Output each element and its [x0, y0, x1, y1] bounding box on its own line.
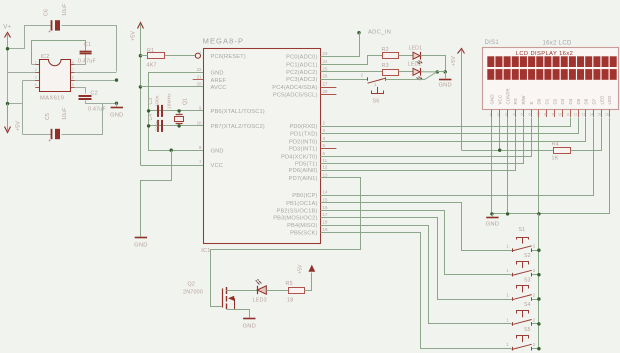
- svg-text:GND: GND: [211, 71, 224, 77]
- switch S3: [512, 297, 514, 301]
- svg-text:100n: 100n: [155, 120, 161, 131]
- crystal Q1: [175, 117, 184, 122]
- pin stub unconnected y87.1: [320, 87, 336, 89]
- diode LED1: [413, 52, 420, 59]
- wire PB5 to S5: [321, 233, 512, 349]
- svg-text:22: 22: [197, 67, 202, 72]
- svg-text:E: E: [529, 101, 534, 104]
- switch S1: [512, 248, 514, 252]
- svg-text:0.47uF: 0.47uF: [88, 107, 106, 113]
- wire switch bus: [538, 214, 540, 349]
- svg-text:PD3(INT1): PD3(INT1): [289, 147, 318, 153]
- wire R1 to reset pin: [165, 55, 195, 57]
- wire S1 to bus: [531, 250, 539, 252]
- svg-text:C6: C6: [44, 9, 50, 16]
- svg-text:PD6(AIN0): PD6(AIN0): [289, 168, 318, 174]
- node GND junction: [170, 149, 173, 152]
- node GND row d0: [537, 212, 540, 215]
- node bus S2: [537, 273, 540, 276]
- svg-text:PD5(T1): PD5(T1): [295, 161, 318, 167]
- svg-text:17: 17: [323, 212, 328, 217]
- capacitor C1: [80, 51, 92, 53]
- svg-text:18: 18: [323, 220, 328, 225]
- svg-text:2: 2: [497, 112, 499, 116]
- svg-text:ADC_IN: ADC_IN: [368, 30, 391, 36]
- wire PC3 to S6: [320, 79, 368, 81]
- wire PB0 to LCD D7: [321, 118, 594, 196]
- pin IC2 left 2: [35, 72, 39, 74]
- svg-text:7: 7: [536, 112, 538, 116]
- lcd pin stubs: [491, 110, 493, 118]
- wire PB2 to S2: [321, 211, 512, 275]
- wire S4 to bus: [531, 323, 539, 325]
- node +5V R1 junction: [139, 54, 142, 57]
- wire LED2 to junction: [421, 71, 438, 73]
- svg-text:C1: C1: [84, 42, 91, 48]
- svg-text:IC1: IC1: [201, 248, 210, 254]
- lcd character blocks: [487, 56, 494, 67]
- svg-text:D3: D3: [560, 98, 565, 104]
- node GND row contr: [506, 212, 509, 215]
- node GND row p1: [490, 212, 493, 215]
- capacitor C4: [157, 120, 159, 132]
- diode LED3: [257, 286, 259, 294]
- svg-text:+5V: +5V: [131, 31, 137, 41]
- capacitor C5: [51, 129, 53, 139]
- wire PC2 to R3: [320, 71, 382, 73]
- resistor R5: [289, 288, 305, 294]
- svg-text:PB2(SS/OC1B): PB2(SS/OC1B): [277, 208, 318, 214]
- svg-text:GND: GND: [243, 324, 256, 330]
- svg-text:PC3(ADC3): PC3(ADC3): [286, 77, 317, 83]
- svg-text:9: 9: [552, 112, 554, 116]
- wire PB3 to S3: [321, 218, 512, 300]
- node XTAL2 gnd: [147, 124, 150, 127]
- wire C5 to GND net: [62, 104, 117, 135]
- svg-text:16: 16: [605, 112, 609, 116]
- svg-text:11: 11: [566, 112, 570, 116]
- capacitor C2: [79, 95, 92, 97]
- diode LED2: [413, 68, 420, 75]
- supply +5V triangle q2: [308, 265, 315, 272]
- wire R4 to LCD LED+: [571, 118, 602, 151]
- svg-text:MAX619: MAX619: [40, 96, 64, 102]
- wire PB1 to S1: [321, 203, 512, 251]
- node bus S4: [537, 322, 540, 325]
- svg-text:S5: S5: [524, 327, 531, 333]
- svg-text:IC2: IC2: [41, 54, 50, 60]
- wire PD0 to LCD D4: [321, 118, 571, 127]
- svg-text:AREF: AREF: [211, 78, 227, 84]
- pin IC2 right 2: [71, 72, 75, 74]
- wire junction to GND: [445, 72, 447, 78]
- wire C1 bottom to IC2: [75, 55, 86, 65]
- svg-text:LED1: LED1: [409, 45, 422, 51]
- wire Q2 drain to LED3: [226, 290, 257, 292]
- ground GND lcd: [486, 217, 498, 219]
- svg-text:GND: GND: [134, 243, 147, 249]
- svg-text:6: 6: [529, 112, 531, 116]
- node LED junction b: [444, 70, 447, 73]
- node +5V AVCC junction: [139, 85, 142, 88]
- svg-text:LED: LED: [607, 95, 612, 105]
- svg-text:4K7: 4K7: [147, 63, 157, 69]
- wire C6 to GND rail: [62, 26, 117, 72]
- svg-text:PB5(SCK): PB5(SCK): [290, 231, 317, 237]
- wire PD1 to LCD D5: [321, 118, 579, 134]
- svg-text:10: 10: [558, 112, 562, 116]
- svg-text:1K: 1K: [552, 156, 559, 162]
- svg-text:+5V: +5V: [16, 121, 22, 131]
- svg-text:24: 24: [323, 59, 328, 64]
- wire PC1 to R2: [321, 56, 383, 65]
- pin AREF stub: [193, 79, 204, 81]
- svg-text:D0: D0: [537, 98, 542, 104]
- svg-text:8: 8: [72, 60, 74, 64]
- svg-text:S6: S6: [373, 99, 380, 105]
- svg-text:LED: LED: [599, 95, 604, 105]
- svg-text:PD4(XCK/T0): PD4(XCK/T0): [281, 154, 317, 160]
- svg-text:11: 11: [323, 158, 328, 163]
- svg-text:D4: D4: [568, 98, 573, 104]
- svg-text:PC1(ADC1): PC1(ADC1): [286, 62, 317, 68]
- pin IC2 right 3: [71, 80, 75, 82]
- wire R2 to LED1: [399, 55, 413, 57]
- svg-text:GND: GND: [486, 222, 499, 228]
- node V+ junction: [6, 47, 9, 50]
- svg-text:1: 1: [35, 60, 37, 64]
- node GND rail pin3: [115, 78, 118, 81]
- wire LCD LED- drop: [492, 118, 610, 214]
- svg-text:16x2 LCD: 16x2 LCD: [543, 41, 572, 47]
- svg-text:20: 20: [197, 82, 202, 87]
- node XTAL1 gnd: [147, 109, 150, 112]
- svg-text:GND: GND: [438, 83, 451, 89]
- svg-text:Q2: Q2: [188, 282, 196, 288]
- wire C2 to GND: [86, 101, 117, 104]
- svg-text:7: 7: [72, 68, 74, 72]
- wire S3 to bus: [531, 299, 539, 301]
- svg-text:8: 8: [544, 112, 546, 116]
- svg-text:2N7000: 2N7000: [183, 290, 203, 296]
- node bus S3: [537, 297, 540, 300]
- svg-text:4: 4: [513, 112, 515, 116]
- wire VCC row: [140, 165, 203, 167]
- ic IC1 MEGA8-P box: [204, 49, 321, 244]
- svg-text:S1: S1: [519, 227, 526, 233]
- switch S4: [512, 322, 514, 326]
- switch S5: [512, 347, 514, 351]
- wire AVCC row: [140, 86, 203, 88]
- svg-text:12: 12: [323, 165, 328, 170]
- svg-text:PC5(ADC5/SCL): PC5(ADC5/SCL): [273, 93, 318, 99]
- node GND rail C2: [115, 102, 118, 105]
- node LED junction a: [436, 70, 439, 73]
- svg-text:LED3: LED3: [253, 298, 267, 304]
- node VCC +5V junction: [498, 149, 501, 152]
- ic IC2 MAX619 body: [40, 60, 71, 92]
- node ADC_IN: [357, 31, 360, 34]
- wire IC2 pin2 to GND rail: [75, 72, 117, 74]
- ground GND q2: [243, 318, 255, 320]
- svg-text:3: 3: [35, 76, 37, 80]
- svg-text:R/W: R/W: [521, 95, 526, 105]
- wire ADC_IN to PC0: [321, 33, 360, 57]
- node bus S5: [537, 347, 540, 350]
- svg-text:C3: C3: [148, 98, 154, 105]
- svg-text:27: 27: [323, 82, 328, 87]
- wire XTAL2 row: [149, 125, 204, 127]
- wire PD5 to LCD R/W: [321, 118, 524, 164]
- svg-text:VCC: VCC: [211, 163, 223, 169]
- svg-text:+: +: [48, 138, 51, 143]
- svg-text:GND: GND: [211, 148, 224, 154]
- wire PD2 to LCD D6: [321, 118, 586, 142]
- svg-text:10uF: 10uF: [62, 3, 68, 16]
- supply +5V arrow right: [458, 49, 465, 54]
- svg-text:LED2: LED2: [408, 62, 421, 68]
- svg-text:Q1: Q1: [183, 98, 189, 105]
- svg-text:PD0(RXD): PD0(RXD): [289, 124, 317, 130]
- supply +5V down arrow: [5, 127, 11, 133]
- svg-text:13: 13: [581, 112, 585, 116]
- svg-text:PC0(ADC0): PC0(ADC0): [286, 55, 317, 61]
- svg-text:R4: R4: [552, 142, 559, 148]
- svg-text:10uF: 10uF: [62, 107, 68, 120]
- wire XTAL1 row: [149, 110, 204, 112]
- svg-text:0.47uF: 0.47uF: [78, 59, 96, 65]
- switch S2: [512, 273, 514, 277]
- svg-text:2: 2: [35, 68, 37, 72]
- svg-text:C4: C4: [148, 114, 154, 121]
- wire R3 to LED2: [399, 71, 413, 73]
- node XTAL1 q1: [177, 109, 180, 112]
- svg-text:PB7(XTAL2/TOSC2): PB7(XTAL2/TOSC2): [211, 124, 265, 130]
- svg-text:S3: S3: [524, 277, 531, 283]
- svg-text:+5V: +5V: [451, 56, 457, 66]
- wire S6 to GND junction: [386, 72, 438, 80]
- wire LCD GND drop: [491, 117, 493, 214]
- svg-text:+: +: [48, 29, 51, 34]
- svg-text:RS: RS: [513, 98, 518, 104]
- svg-text:19: 19: [323, 227, 328, 232]
- capacitor C6: [51, 20, 53, 30]
- wire +5V junction to IC2 pin3 and C5: [8, 81, 52, 135]
- wire V+ to C6 rail: [8, 26, 51, 49]
- pin IC2 left 4: [35, 87, 39, 89]
- svg-text:4: 4: [35, 83, 37, 87]
- svg-text:10: 10: [197, 121, 202, 126]
- svg-text:PB4(MISO): PB4(MISO): [287, 223, 317, 229]
- svg-text:AVCC: AVCC: [211, 85, 227, 91]
- transistor Q2 2N7000: [222, 289, 224, 308]
- svg-text:14: 14: [589, 112, 593, 116]
- svg-text:GND: GND: [490, 94, 495, 105]
- wire GND to ground: [141, 151, 172, 237]
- ground GND MAX619: [111, 107, 123, 109]
- svg-text:16MHz: 16MHz: [167, 93, 173, 109]
- svg-text:R3: R3: [382, 63, 389, 69]
- svg-text:R5: R5: [286, 281, 293, 287]
- svg-text:14: 14: [323, 190, 328, 195]
- wire S5 to bus: [531, 348, 539, 350]
- svg-text:V+: V+: [3, 25, 11, 31]
- pin stub unconnected y94.6: [320, 94, 336, 96]
- wire GND pin22 net: [149, 73, 204, 151]
- wire LCD CONTR drop: [507, 117, 509, 214]
- svg-text:PC4(ADC4/SDA): PC4(ADC4/SDA): [272, 85, 317, 91]
- svg-text:PB1(OC1A): PB1(OC1A): [286, 201, 317, 207]
- wire +5V row to R4: [462, 150, 554, 152]
- pin stub unconnected y148.6: [320, 148, 336, 150]
- resistor R2: [383, 53, 399, 59]
- pin IC2 right 1: [71, 64, 75, 66]
- svg-text:PD2(INT0): PD2(INT0): [289, 139, 318, 145]
- svg-text:18: 18: [287, 298, 293, 304]
- svg-text:21: 21: [197, 74, 202, 79]
- resistor R4: [554, 148, 571, 154]
- svg-text:5: 5: [72, 83, 74, 87]
- wire LCD D0 drop: [538, 117, 540, 214]
- svg-text:13: 13: [323, 173, 328, 178]
- svg-text:15: 15: [597, 112, 601, 116]
- svg-text:3: 3: [505, 112, 507, 116]
- wire R5 to +5V: [305, 273, 312, 291]
- svg-text:MEGA8-P: MEGA8-P: [203, 37, 244, 46]
- svg-text:25: 25: [323, 66, 328, 71]
- svg-text:C2: C2: [91, 91, 98, 97]
- svg-text:100n: 100n: [155, 95, 161, 106]
- svg-text:6: 6: [72, 76, 74, 80]
- svg-text:12: 12: [574, 112, 578, 116]
- svg-text:DIS1: DIS1: [485, 40, 500, 46]
- svg-text:1: 1: [489, 112, 491, 116]
- capacitor C3: [157, 105, 159, 117]
- wire C1 top net: [32, 41, 86, 65]
- svg-text:PD7(AIN1): PD7(AIN1): [289, 176, 318, 182]
- supply V+ symbol: [5, 33, 11, 38]
- wire GND rail: [116, 103, 118, 107]
- svg-text:S2: S2: [524, 253, 531, 259]
- ground GND leds: [439, 79, 451, 81]
- svg-text:15: 15: [323, 197, 328, 202]
- svg-text:VCC: VCC: [497, 94, 502, 104]
- svg-text:D2: D2: [552, 98, 557, 104]
- svg-text:5: 5: [521, 112, 523, 116]
- wire LCD VCC drop: [499, 117, 501, 150]
- wire V+ rail: [7, 49, 9, 104]
- node XTAL2 q1: [177, 124, 180, 127]
- svg-text:GND: GND: [110, 113, 123, 119]
- svg-text:PB0(ICP): PB0(ICP): [292, 193, 317, 199]
- wire IC2 pin3 to GND rail: [75, 80, 117, 82]
- switch S6: [367, 77, 369, 81]
- svg-text:D6: D6: [584, 98, 589, 104]
- wire PB4 to S4: [321, 226, 512, 324]
- svg-text:26: 26: [323, 74, 328, 79]
- pin IC2 right 4: [71, 87, 75, 89]
- svg-text:S4: S4: [524, 302, 531, 308]
- svg-text:R1: R1: [147, 48, 154, 54]
- svg-text:PD1(TXD): PD1(TXD): [290, 131, 317, 137]
- svg-text:CONTR: CONTR: [505, 88, 510, 105]
- node +5V junction: [6, 102, 9, 105]
- svg-text:C5: C5: [45, 113, 51, 120]
- resistor R1: [148, 53, 165, 59]
- svg-text:LCD DISPLAY 16x2: LCD DISPLAY 16x2: [516, 51, 574, 57]
- wire PD4 to LCD E: [321, 118, 532, 157]
- svg-text:PB6(XTAL1/TOSC1): PB6(XTAL1/TOSC1): [211, 109, 265, 115]
- svg-text:D7: D7: [592, 98, 597, 104]
- pin 1 reset circle: [195, 53, 200, 58]
- svg-text:R2: R2: [382, 47, 389, 53]
- wire Q2 source to GND: [227, 310, 250, 318]
- svg-text:PC6(RESET): PC6(RESET): [211, 54, 246, 60]
- wire S2 to bus: [531, 274, 539, 276]
- svg-text:PC2(ADC2): PC2(ADC2): [286, 70, 317, 76]
- svg-text:23: 23: [323, 51, 328, 56]
- pin IC2 left 3: [35, 80, 39, 82]
- pin IC2 left 1: [35, 64, 39, 66]
- supply +5V arrow mcu: [138, 23, 144, 29]
- wire LED3 to R5: [266, 290, 288, 292]
- ground GND mcu: [135, 237, 147, 239]
- svg-text:D5: D5: [576, 98, 581, 104]
- svg-text:D1: D1: [544, 98, 549, 104]
- wire V+ to IC2 pin2: [8, 72, 36, 74]
- node bus S1: [537, 249, 540, 252]
- svg-text:PB3(MOSI/OC2): PB3(MOSI/OC2): [273, 216, 317, 222]
- svg-text:28: 28: [323, 89, 328, 94]
- wire IC2 pin4 to C2: [75, 88, 86, 94]
- wire PD7 to Q2 gate: [211, 178, 361, 307]
- svg-text:16: 16: [323, 205, 328, 210]
- wire PD6 to LCD RS: [321, 118, 516, 171]
- wire LED1 to junction: [421, 56, 446, 72]
- svg-text:+5V: +5V: [298, 264, 304, 274]
- lcd DIS1 box: [483, 48, 619, 110]
- resistor R3: [383, 70, 399, 76]
